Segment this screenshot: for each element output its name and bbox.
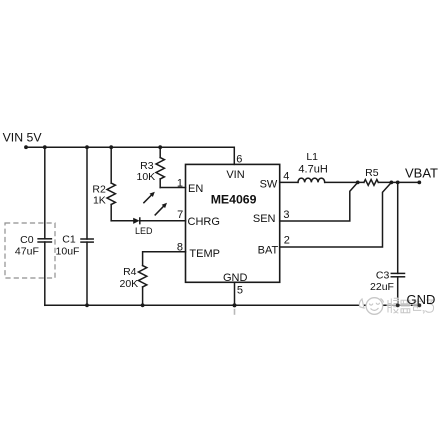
node top rail R2 junction [109,145,113,149]
wire L1 to R5 [325,181,364,183]
node VBAT terminal [417,181,421,185]
dashed box around C0 [5,223,55,278]
wire SW pin4 to L1 [280,181,298,183]
svg-text:VIN 5V: VIN 5V [3,131,43,145]
svg-text:TEMP: TEMP [189,248,220,260]
node bottom rail C3 junction [396,303,400,307]
node top rail R3 junction [158,145,162,149]
svg-text:CHRG: CHRG [188,216,220,228]
node top rail C0 junction [43,145,47,149]
svg-text:R4: R4 [123,266,137,278]
node bottom rail pin5 junction [232,303,236,307]
svg-text:8: 8 [177,241,183,253]
svg-text:SEN: SEN [253,213,276,225]
wire BAT pin2 riser [280,182,392,247]
LED arrow 1 [144,194,152,202]
svg-text:10uF: 10uF [56,245,80,257]
svg-text:4: 4 [283,170,289,182]
svg-text:BAT: BAT [258,245,279,257]
svg-text:ME4069: ME4069 [211,193,257,207]
capacitor C0 [44,147,46,239]
svg-text:2: 2 [284,235,290,247]
watermark logo [359,298,383,315]
LED arrow 2 [155,206,164,215]
LED D1 [133,218,139,224]
svg-text:6: 6 [236,154,242,166]
svg-text:C1: C1 [62,233,76,245]
wire R3 to EN pin1 [160,187,185,189]
node top rail C1 junction [85,145,89,149]
svg-text:L1: L1 [306,151,318,163]
svg-text:3: 3 [283,209,289,221]
svg-text:SW: SW [260,179,278,191]
svg-text:GND: GND [223,272,248,284]
svg-text:VIN: VIN [226,169,244,181]
svg-text:20K: 20K [120,278,139,290]
ghost ground stub below pin5 node [234,309,236,315]
wire SEN pin3 riser [280,182,358,221]
node bottom rail C3 junction redraw [396,303,400,307]
svg-text:7: 7 [177,209,183,221]
svg-text:VBAT: VBAT [405,165,438,180]
node GND terminal redraw [417,303,421,307]
node SW/SEN junction [356,181,360,185]
svg-text:5: 5 [237,285,243,297]
capacitor C1 [86,147,88,239]
svg-text:EN: EN [188,183,203,195]
svg-text:4.7uH: 4.7uH [298,163,327,175]
wire bottom GND rail [45,304,420,306]
svg-text:C3: C3 [376,269,390,281]
wire TEMP pin8 to R4 [143,252,186,266]
inductor L1 [298,178,325,182]
svg-text:R2: R2 [92,183,106,195]
svg-text:10K: 10K [137,171,156,183]
resistor R5 [364,180,378,186]
wire LED to CHRG pin7 [140,220,186,222]
resistor R2 [110,147,112,183]
watermark text 微盟电子 [387,298,436,315]
node VIN terminal [24,145,28,149]
svg-text:LED: LED [135,226,153,236]
svg-text:47uF: 47uF [15,245,39,257]
op-amp U1 ME4069 IC box [186,164,280,282]
node bottom rail C1 junction [85,303,89,307]
wire GND pin5 [234,282,236,305]
svg-text:22uF: 22uF [370,281,394,293]
node BAT junction [390,181,394,185]
svg-text:1: 1 [177,177,183,189]
wire R2 to LED [111,220,133,222]
resistor R3 [159,147,161,157]
node bottom rail R4 junction [141,303,145,307]
capacitor C3 [397,182,399,273]
node C3 junction [396,181,400,185]
wire top rail VIN [26,147,234,164]
wire R5 to VBAT [378,181,419,183]
node GND terminal [417,303,421,307]
svg-text:R5: R5 [365,167,379,179]
resistor R4 [138,266,146,288]
svg-text:1K: 1K [93,195,106,207]
